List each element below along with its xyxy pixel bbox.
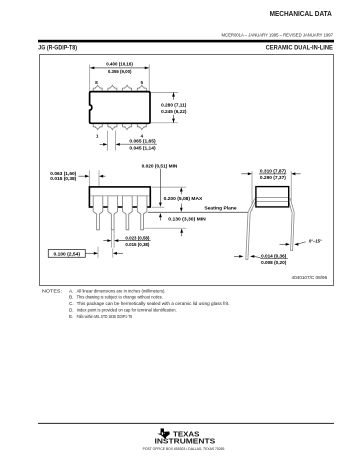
dimension 0.130 MIN (168, 216, 206, 236)
svg-text:0.045 (1,14): 0.045 (1,14) (129, 145, 156, 150)
svg-text:0.015 (0,38): 0.015 (0,38) (125, 242, 149, 247)
svg-text:This package can be hermetical: This package can be hermetically sealed … (77, 301, 230, 306)
dimension 0.100 pitch (48, 247, 123, 258)
TI texas-state logo (157, 428, 170, 439)
front lead 2 (108, 196, 118, 230)
svg-text:Falls within MIL STD 1835 GDIP: Falls within MIL STD 1835 GDIP1-T8 (77, 314, 133, 319)
end view left leg (246, 199, 257, 260)
svg-text:D.: D. (69, 307, 74, 312)
svg-text:0.245 (6,22): 0.245 (6,22) (161, 109, 187, 114)
dimension 0.400/0.355 top width (90, 62, 150, 92)
seating plane line (148, 211, 249, 213)
svg-text:Index point is provided on cap: Index point is provided on cap for termi… (77, 307, 177, 312)
svg-text:1: 1 (96, 134, 99, 140)
svg-text:Seating Plane: Seating Plane (204, 205, 237, 210)
dimension 0.200 MAX (164, 187, 204, 212)
svg-text:0°–15°: 0°–15° (309, 239, 322, 244)
svg-text:MCER001A – JANUARY 1995 – REVI: MCER001A – JANUARY 1995 – REVISED JANUAR… (222, 32, 334, 37)
svg-text:0.130 (3,30) MIN: 0.130 (3,30) MIN (168, 216, 206, 221)
top view pin 7 (108, 85, 117, 92)
svg-text:INSTRUMENTS: INSTRUMENTS (155, 438, 216, 446)
header thick rule (38, 40, 334, 43)
svg-text:C.: C. (69, 301, 74, 306)
top view pin 3 (bottom row) (123, 122, 132, 129)
svg-text:0.355 (9,00): 0.355 (9,00) (108, 69, 132, 74)
top view pin 1 (bottom row) (93, 122, 102, 129)
body bottom extension line (152, 206, 164, 208)
svg-text:POST OFFICE BOX 655303 • DALLA: POST OFFICE BOX 655303 • DALLAS, TEXAS 7… (143, 446, 225, 451)
dimension 0.020 MIN (142, 163, 178, 220)
svg-text:JG (R-GDIP-T8): JG (R-GDIP-T8) (38, 44, 77, 51)
svg-text:0.290 (7,37): 0.290 (7,37) (260, 175, 286, 180)
svg-text:NOTES:: NOTES: (42, 288, 62, 293)
svg-text:4040107/C 08/96: 4040107/C 08/96 (292, 275, 328, 280)
svg-text:E.: E. (69, 314, 73, 319)
dimension 0.280/0.245 body width (151, 92, 187, 122)
svg-text:This drawing is subject to cha: This drawing is subject to change withou… (77, 295, 164, 300)
drawing frame box (40, 55, 334, 286)
svg-text:0.008 (0,20): 0.008 (0,20) (261, 260, 287, 265)
seal line (90, 195, 149, 197)
svg-text:CERAMIC DUAL-IN-LINE: CERAMIC DUAL-IN-LINE (266, 44, 333, 51)
end view right leg (288, 199, 294, 251)
svg-text:0.065 (1,65): 0.065 (1,65) (129, 139, 156, 144)
svg-text:0.310 (7,87): 0.310 (7,87) (260, 168, 286, 173)
svg-text:0.023 (0,58): 0.023 (0,58) (125, 235, 149, 240)
svg-text:A.: A. (69, 288, 73, 293)
svg-text:B.: B. (69, 295, 73, 300)
svg-text:0.015 (0,38): 0.015 (0,38) (50, 176, 76, 181)
end view seal lines (257, 196, 288, 198)
cap top extension line (152, 186, 186, 188)
top view pin 6 (123, 85, 132, 92)
dimension 0.065/0.045 pin width (100, 131, 157, 151)
dimension 0.063/0.015 (50, 170, 105, 196)
top view pin 2 (bottom row) (108, 122, 117, 129)
svg-text:MECHANICAL DATA: MECHANICAL DATA (270, 9, 333, 18)
top view pin 8 (93, 85, 102, 92)
svg-text:0.400 (10,16): 0.400 (10,16) (106, 62, 133, 67)
svg-text:All linear dimensions are in i: All linear dimensions are in inches (mil… (77, 288, 166, 293)
front lead 4 (137, 196, 147, 230)
front lead 1 (93, 196, 103, 230)
lead tip extension line (144, 227, 186, 229)
front view package body (89, 187, 150, 207)
svg-text:0.200 (5,08) MAX: 0.200 (5,08) MAX (164, 196, 204, 201)
top view pin 5 (137, 85, 146, 92)
svg-text:0.100 (2,54): 0.100 (2,54) (54, 252, 81, 257)
top view pin 4 (bottom row) (137, 122, 146, 129)
angle 0-15 deg callout (280, 239, 322, 246)
dimension 0.023/0.015 lead width (103, 230, 150, 247)
footer rule (38, 422, 334, 424)
dimension 0.310/0.290 lead span (241, 168, 300, 210)
svg-text:0.014 (0,36): 0.014 (0,36) (261, 253, 287, 258)
front lead 3 (123, 196, 133, 230)
dimension 0.014/0.008 lead thickness (234, 253, 288, 265)
end view package body (256, 187, 289, 207)
svg-text:0.020 (0,51) MIN: 0.020 (0,51) MIN (142, 163, 178, 168)
svg-text:0.280 (7,11): 0.280 (7,11) (161, 103, 187, 108)
package body top view (90, 92, 150, 124)
